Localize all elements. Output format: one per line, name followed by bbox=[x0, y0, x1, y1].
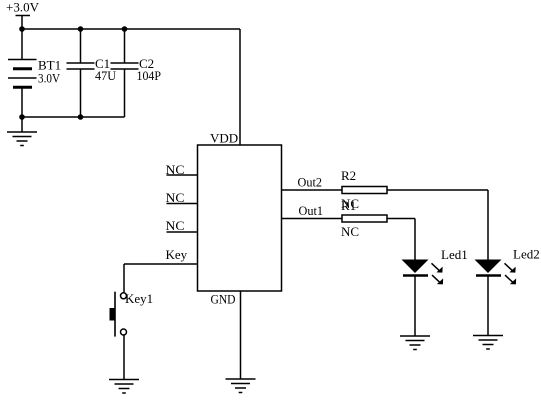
wire battery negative lead bbox=[21, 87, 23, 117]
svg-text:NC: NC bbox=[341, 224, 359, 239]
pin NC 3 bbox=[167, 231, 198, 233]
IC U1 body bbox=[198, 145, 282, 291]
svg-text:R2: R2 bbox=[341, 168, 356, 183]
svg-text:Out2: Out2 bbox=[298, 175, 323, 190]
svg-text:Key1: Key1 bbox=[125, 291, 153, 306]
resistor R1 bbox=[342, 215, 387, 222]
wire R1 to Led1 bbox=[387, 218, 415, 220]
ground below Key1 bbox=[109, 380, 139, 394]
wire top rail bbox=[22, 28, 240, 30]
pin Out2 bbox=[282, 189, 343, 191]
switch Key1 bbox=[110, 292, 127, 337]
capacitor C2 bbox=[111, 63, 139, 69]
LED Led2 bbox=[475, 260, 517, 285]
wire battery ground lead bbox=[21, 117, 23, 132]
svg-text:NC: NC bbox=[166, 162, 185, 177]
pin Key bbox=[124, 263, 198, 265]
capacitor C1 bbox=[67, 63, 95, 69]
svg-text:+3.0V: +3.0V bbox=[6, 0, 40, 15]
battery BT1 bbox=[8, 60, 37, 88]
svg-text:Out1: Out1 bbox=[299, 203, 324, 218]
power port +3.0V bbox=[16, 16, 31, 30]
ground below Led1 bbox=[400, 336, 430, 350]
ground below IC bbox=[226, 379, 256, 393]
wire C1 bottom lead bbox=[80, 69, 82, 117]
wire R2 to Led2 bbox=[387, 189, 488, 191]
node junction at C1 top bbox=[78, 26, 84, 32]
wire bottom rail bbox=[22, 116, 125, 118]
svg-text:NC: NC bbox=[166, 218, 185, 233]
svg-text:47U: 47U bbox=[95, 68, 117, 83]
wire Key vertical bbox=[123, 264, 125, 293]
resistor R2 bbox=[342, 187, 387, 194]
LED Led1 bbox=[402, 260, 444, 285]
wire Led2 cathode lead bbox=[487, 277, 489, 336]
svg-text:R1: R1 bbox=[341, 198, 356, 213]
node junction at C1 bottom bbox=[78, 114, 84, 120]
pin Out1 bbox=[282, 218, 343, 220]
node junction at battery bottom bbox=[19, 114, 25, 120]
pin NC 1 bbox=[167, 174, 198, 176]
wire GND lead bbox=[240, 291, 242, 379]
svg-text:GND: GND bbox=[211, 292, 236, 307]
svg-text:Led1: Led1 bbox=[441, 247, 468, 262]
svg-text:3.0V: 3.0V bbox=[38, 70, 61, 85]
node junction at C2 top bbox=[122, 26, 128, 32]
ground below Led2 bbox=[473, 336, 503, 350]
svg-text:NC: NC bbox=[166, 190, 185, 205]
pin NC 2 bbox=[167, 203, 198, 205]
svg-text:104P: 104P bbox=[137, 68, 162, 83]
wire Led1 drop bbox=[414, 219, 416, 260]
wire C2 bottom lead bbox=[124, 69, 126, 117]
ground below battery bbox=[7, 132, 37, 146]
node junction at battery top bbox=[19, 26, 25, 32]
wire C1 top lead bbox=[80, 29, 82, 63]
wire Led1 cathode lead bbox=[414, 277, 416, 337]
svg-text:Key: Key bbox=[166, 247, 188, 262]
wire Led2 drop bbox=[487, 190, 489, 260]
wire C2 top lead bbox=[124, 29, 126, 63]
svg-text:VDD: VDD bbox=[210, 131, 238, 146]
wire VDD lead bbox=[239, 29, 241, 145]
wire battery positive lead bbox=[21, 29, 23, 60]
svg-text:Led2: Led2 bbox=[513, 247, 540, 262]
wire switch to ground bbox=[123, 335, 125, 380]
